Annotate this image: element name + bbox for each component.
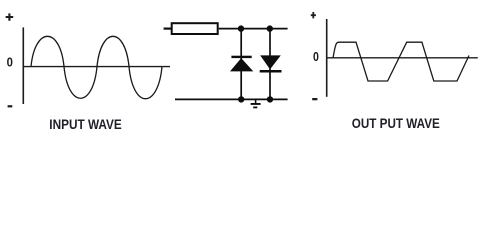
input graph vertical axis [22,27,24,104]
resistor [172,23,218,34]
input sine wave [31,36,162,98]
diode D2 (anode up, cathode bar down) [260,55,282,72]
svg-text:OUT PUT WAVE: OUT PUT WAVE [352,116,440,131]
bottom junction dot under node B [267,96,273,102]
svg-text:0: 0 [7,55,13,70]
output graph vertical axis [326,19,328,97]
node B junction dot [267,25,273,31]
bottom wire (ground rail) [175,98,288,100]
node A junction dot [238,25,244,31]
wire resistor to node A [219,28,241,30]
ground [251,99,261,108]
output graph plus sign [311,12,316,18]
input graph horizontal axis [23,66,170,68]
input graph plus sign [6,13,14,20]
bottom junction dot under node A [238,96,244,102]
wire node A to node B [241,28,270,30]
wire node B to output [270,28,288,30]
wire input to resistor [164,28,171,30]
output graph minus sign [312,98,317,100]
wire node A down to diode D1 and bottom [240,29,242,100]
svg-text:INPUT WAVE: INPUT WAVE [49,117,122,132]
input graph minus sign [8,105,13,107]
svg-text:0: 0 [313,49,319,64]
output graph horizontal axis [327,57,478,59]
diode D1 (anode down, cathode bar up) [230,56,253,72]
wire node B down to diode D2 and bottom [269,29,271,100]
output clipped wave [333,42,469,81]
